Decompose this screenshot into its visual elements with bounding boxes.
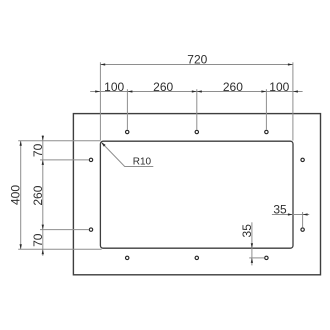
extension line to top hole 2 — [196, 89, 198, 130]
arrow 720 left — [100, 63, 105, 65]
extension line right end of 720 dim — [292, 62, 294, 140]
dimension line 400 — [20, 141, 22, 250]
arrow chain outside-right at 720 — [293, 90, 298, 92]
svg-text:70: 70 — [31, 143, 45, 157]
arrow 35 bottom at cutout edge — [251, 243, 253, 248]
hole top-right — [265, 130, 268, 133]
leader arrowhead R10 — [101, 142, 106, 147]
hole right-lower — [301, 228, 304, 231]
hole left-upper — [89, 158, 92, 161]
svg-text:35: 35 — [240, 224, 254, 238]
arrow left chain outside-bottom — [42, 249, 44, 254]
pointer line to bottom right hole — [249, 257, 264, 259]
svg-text:35: 35 — [273, 203, 287, 217]
arrow 35 right at hole centerline — [303, 213, 308, 215]
dimension line 35 bottom — [251, 222, 253, 265]
extension line to top hole 1 — [126, 89, 128, 130]
pointer line to left lower hole — [40, 229, 89, 231]
pointer line to right lower hole — [302, 212, 304, 228]
arrow 400 top — [20, 141, 22, 146]
pointer line to left upper hole — [40, 159, 89, 161]
svg-text:260: 260 — [31, 185, 45, 205]
svg-text:100: 100 — [269, 80, 289, 94]
leader line for R10 — [102, 143, 154, 167]
dimension line 70/260/70 chain — [42, 135, 44, 256]
extension line top of 400 dim — [18, 140, 100, 142]
extension line bottom of 400 dim — [18, 248, 101, 250]
hole top-middle — [195, 130, 198, 133]
svg-text:400: 400 — [9, 185, 23, 205]
arrow chain at 360 pointing right — [192, 90, 197, 92]
arrow left chain at hole row 1 — [42, 160, 44, 165]
arrow chain at 620 pointing right — [261, 90, 266, 92]
hole top-left — [126, 130, 129, 133]
svg-text:100: 100 — [104, 80, 124, 94]
dimension line 720 — [100, 64, 293, 66]
arrow 35 right at cutout edge — [288, 213, 293, 215]
hole bottom-left — [126, 256, 129, 259]
arrow left chain outside-top — [42, 136, 44, 141]
svg-text:260: 260 — [153, 80, 173, 94]
arrow chain at 360 pointing left — [197, 90, 202, 92]
hole bottom-middle — [195, 256, 198, 259]
hole bottom-right — [265, 256, 268, 259]
arrow left chain at hole row 2 — [42, 225, 44, 230]
dimension line 100/260/260/100 chain — [90, 91, 302, 93]
extension line to top hole 3 — [265, 89, 267, 130]
svg-text:260: 260 — [223, 80, 243, 94]
hole left-lower — [89, 228, 92, 231]
svg-text:70: 70 — [31, 233, 45, 247]
plate outline (outer rectangle) — [73, 114, 320, 275]
dimension line 35 right — [272, 214, 309, 216]
arrow 400 bottom — [20, 244, 22, 249]
arrow chain at 100 pointing left — [127, 90, 132, 92]
arrow 35 bottom at hole centerline — [251, 258, 253, 263]
extension line left end of 720 dim — [99, 62, 101, 140]
arrow chain outside-left at 0 — [95, 90, 100, 92]
arrow 720 right — [288, 63, 293, 65]
rectangular cutout with R10 corners — [100, 141, 293, 248]
svg-text:720: 720 — [187, 53, 207, 67]
hole right-upper — [301, 158, 304, 161]
svg-text:R10: R10 — [133, 157, 152, 168]
